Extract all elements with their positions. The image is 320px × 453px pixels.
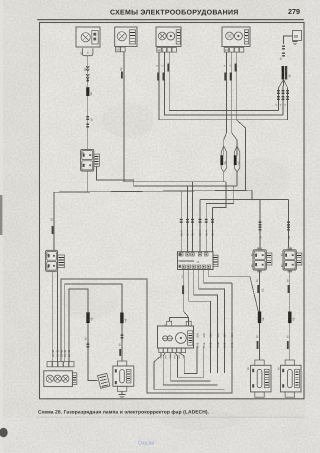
lamp module LM2 (right gas discharge igniter) — [247, 360, 271, 397]
ground branch 3 down — [286, 88, 289, 120]
drop ECU pin5 — [205, 204, 207, 252]
labels on headlight wires — [52, 350, 71, 357]
labels on right lanes — [196, 333, 234, 348]
fuse F2a with diamond splice — [220, 146, 227, 172]
wire F2a down to H_a — [224, 172, 226, 182]
marker chevron on A1 wire — [84, 66, 89, 71]
U-loop wire 4 — [163, 353, 217, 385]
wire labels above ECU — [180, 230, 214, 236]
wire A4-3 to main bus — [237, 52, 246, 190]
labels under M1 pins — [160, 355, 186, 358]
U-loop wire 5 — [154, 353, 225, 390]
headlamp corrector motor M1 — [158, 326, 194, 348]
wire A3-3 to ground link 3 — [169, 52, 278, 110]
wire F5 down to lamp module LM2 — [256, 323, 260, 360]
labels on A4 wires — [223, 64, 236, 81]
labels on ground branches — [275, 104, 287, 106]
H_a drop to ECU pin3 — [192, 182, 194, 252]
ECU staircase wire to lane U3 — [189, 270, 211, 374]
connector X3 (right middle) — [280, 247, 302, 272]
fuse F4 — [120, 313, 127, 324]
motor M1 bottom pin row — [159, 348, 186, 352]
wire A3-1 to ground link 1 — [159, 52, 288, 120]
connector marks on ECU feed lanes — [180, 219, 214, 223]
connector shell under A1 with pin 92 — [79, 48, 93, 55]
page number 279 — [288, 7, 300, 16]
wire A2 horizontal run H_a to fuse F2a — [124, 181, 226, 183]
drop ECU pin6 — [212, 208, 214, 252]
right feed wire H_c with drops — [200, 190, 289, 199]
U-loop wire 2 — [174, 347, 203, 378]
wire A2 down — [120, 52, 124, 182]
headlamp unit A3 (two-lamp box) — [156, 27, 181, 47]
U-loop wire 1 — [179, 347, 197, 374]
bus wire B2 from headlight to fuse F4 — [65, 284, 122, 362]
ground point G1 (top right) — [293, 31, 302, 45]
wire F1 to relay K1 — [87, 96, 89, 149]
ground branch 1 down — [277, 88, 280, 110]
wires X1 down to headlight connector — [53, 271, 58, 361]
marks on G1 wire — [280, 46, 285, 61]
fuse F5 — [258, 312, 265, 324]
lamp module LM3 (right gas discharge igniter) — [277, 360, 301, 397]
wire A1 to fuse F1 — [87, 56, 89, 87]
wire F2b down to H_b — [236, 172, 238, 186]
pin row under A3 — [157, 48, 177, 53]
ECU pin B1 wire straight down to motor M1 — [182, 270, 189, 318]
ground G2 (hatched block) — [98, 373, 110, 388]
wire X3 down to fuse F6 — [286, 270, 290, 312]
inline connector marks on F1-K1 wire — [86, 116, 93, 128]
caption rule — [36, 416, 304, 419]
ground branch 2 down — [282, 86, 285, 115]
relay K1 pin2 zigzag wire H_b to fuse F2b — [97, 166, 238, 186]
H_b drop to ECU pin2 — [187, 186, 189, 252]
wire F4 to lamp module LM1 — [118, 323, 123, 361]
ECU staircase wire to lane U5 — [199, 270, 225, 374]
wire G1 left and down — [284, 36, 293, 44]
marker on A1 wire with dot — [86, 74, 89, 82]
headlight pin row — [47, 362, 74, 367]
relay K1 connector (two-cell) — [81, 149, 100, 171]
fuse F6 — [288, 312, 295, 324]
pin row under A4 — [224, 48, 244, 53]
main bus wire from node X1 to A4 wire — [54, 190, 252, 192]
figure caption — [38, 409, 210, 415]
feed for ECU pin5 — [206, 186, 234, 204]
lamp unit A2 (second top box) — [115, 27, 137, 47]
wire F7 down to ground G2 — [84, 323, 97, 381]
motor M1 top bridge wire — [170, 318, 189, 327]
ECU control unit U1 — [178, 252, 214, 270]
faint scan stains — [62, 102, 290, 430]
ground under LM1 — [119, 391, 126, 398]
drop to connector X3 — [288, 200, 290, 251]
fuse F3 (twin bar) — [282, 66, 292, 80]
header rule — [37, 19, 304, 20]
wire A4-1 to fuse F2a — [224, 52, 227, 155]
watermark — [138, 441, 154, 447]
ECU staircase wire to lane U4 — [194, 270, 218, 374]
ECU side connector — [213, 255, 218, 266]
feed for ECU pin6 — [213, 182, 227, 208]
ground wire split into three — [278, 80, 287, 89]
wire A3-2 to ground link 2 — [164, 52, 283, 115]
wire X2 down to fuse F5 — [256, 270, 265, 312]
drop to ECU pin4 — [199, 200, 201, 252]
wire bus down to connector X1 — [51, 192, 54, 250]
ECU staircase wire to fuse F5 with diagonal — [209, 270, 258, 312]
fuse F2b with diamond splice — [234, 146, 241, 172]
ECU staircase wire to U-loop B1 right — [204, 270, 232, 283]
marks and labels on X2/X3 feeds — [259, 222, 291, 240]
bus wire B3 from headlight to fuse F7 — [69, 289, 88, 362]
lamp unit A1 (top-left box with lamp symbol) — [76, 27, 100, 47]
fuse F7 — [86, 312, 93, 323]
motor M1 top pin stub — [164, 321, 191, 327]
lamp module LM1 (gas discharge lamp) — [113, 361, 134, 391]
schematic border frame — [40, 23, 305, 399]
connector X1 (left middle two-cell) — [46, 250, 65, 271]
headlight unit HL with three lamps — [44, 371, 77, 387]
labels on A3 wires — [156, 64, 169, 81]
scan artifacts left edge — [0, 0, 8, 453]
bus drop to ECU pin1 — [180, 191, 182, 252]
U-loop wire 3 — [170, 353, 211, 381]
wire F6 down to lamp module LM3 — [286, 323, 290, 360]
connector X2 (right middle) — [250, 247, 272, 272]
drop to connector X2 — [259, 200, 261, 251]
bus wire B1 from headlight to U-loop — [61, 279, 232, 393]
wire K1 bottom to ground bus — [87, 171, 89, 192]
page header title — [110, 9, 239, 16]
wire A4-2 to fuse F2b — [232, 52, 237, 155]
headlamp unit A4 (two-lamp box right) — [222, 27, 250, 47]
fuse F1 black bar — [86, 87, 93, 96]
pins under A2 — [116, 47, 126, 52]
